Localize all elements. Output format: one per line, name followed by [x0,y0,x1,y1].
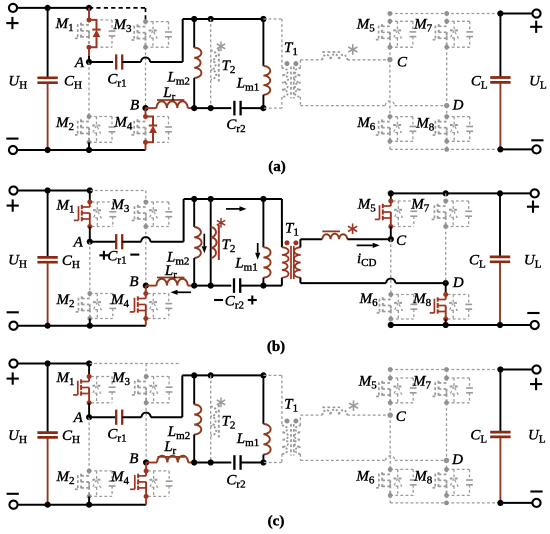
wire: node A to Cr1 (a) [89,61,113,63]
mosfet M4 conducting (b) [130,291,172,321]
node: M8 bottom rail junction (c) [444,501,449,506]
node: T2 top (a) [208,16,214,22]
svg-text:A: A [73,410,84,426]
inductor Lm1 (c) [263,375,270,462]
label M8 (a) [415,116,435,134]
mosfet M2 (c) [73,469,115,499]
node: M7 top rail junction (b) [443,190,449,196]
wire: M2 source stub (b) [89,319,91,326]
mosfet M8 (c) [431,467,473,498]
mosfet M3 (a) [130,19,172,49]
inductor Lr (c) [146,456,191,463]
label UH (a) [8,73,27,91]
wire: CL bottom rail to terminal (b) [500,324,535,326]
terminal - high side (a) [6,139,18,154]
wire: hop to corner riser (b) [150,199,183,242]
node: T2 bottom (b) [208,283,214,289]
wire: M3 source to node B dashed (c) [145,403,147,463]
node: CL top junction (c) [497,366,503,372]
label Cr1 (a) [107,71,126,89]
node: CL top junction (a) [497,10,503,16]
polarity asterisk secondary (c) [349,400,358,411]
capacitor Cr1 (c) [116,410,122,425]
label M1 (c) [56,370,75,388]
wire: Lr to Lm2 bottom (c) [192,462,195,464]
wire: A to M2 dashed (a) [88,62,90,117]
capacitor Cr2 (b) [234,278,240,293]
label M6 (b) [359,291,379,309]
label T1 (a) [284,40,298,58]
wire: M1 drain stub (a) [88,8,90,20]
mosfet M2 (b) [74,291,116,321]
node: M7 top rail junction (a) [444,11,449,16]
mosfet M3 (b) [130,200,172,229]
node: CH top junction (b) [45,187,51,193]
wire: T1 secondary top lead dashed (a) [300,60,322,68]
node: T2 bottom (c) [208,459,214,465]
transformer T1 (c) [282,419,301,456]
node: CL bottom junction (b) [497,322,503,328]
wire: middle top rail (a) [183,18,264,20]
wire: right bottom rail (b) [391,324,500,326]
wire: T1 primary bottom lead (b) [263,278,282,286]
wire: M1 source to node A (c) [88,403,90,417]
wire: CL bottom rail to terminal (c) [500,502,536,504]
node D (c) [444,452,463,468]
current arrow Lm2 down (b) [202,234,207,254]
wire: B to M4 drain (b) [145,286,147,294]
label iCD (b) [357,251,377,269]
terminal - low side (b) [527,313,539,329]
label CH (c) [62,428,80,446]
node: M2 source rail junction (b) [87,323,93,329]
wire: node A to Cr1 (b) [90,241,116,243]
capacitor CH (a) [37,8,57,150]
wire: top rail left (+) subfig c [14,363,90,365]
wire: Cr1 to hop (c) [122,416,141,418]
label (a) [268,159,286,175]
label + Cr1 - (b) [99,249,139,267]
mosfet M8 (a) [431,114,473,144]
wire: Lm2-T2-Cr2 bottom (a) [194,107,231,109]
node: CH top junction (a) [45,5,51,11]
label Lm2 (c) [167,424,190,442]
wire: dashed rail M1-M3 top (c) [89,364,181,377]
node: Lm2 bottom (c) [191,459,197,465]
mosfet M5 (c) [374,376,416,406]
label M2 (a) [55,115,74,133]
wire: M4 source to bottom rail (c) [145,496,147,504]
mosfet M6 (a) [374,114,416,144]
svg-text:(c): (c) [268,514,285,530]
node C (b) [388,233,407,249]
wire: middle top rail (b) [184,198,264,200]
inductor Lm1 (a) [263,19,270,108]
label M1 (b) [56,198,75,216]
wire: hop to corner riser (c) [151,375,183,417]
node D (b) [443,275,464,291]
svg-text:(b): (b) [267,339,285,355]
wire: top rail left (+) subfig a [13,7,89,9]
label M3 (a) [113,17,133,35]
wire: bottom rail left (b) [14,325,146,327]
node: T2 top (c) [208,372,214,378]
node: CH top junction (c) [45,360,51,366]
label (c) [268,514,285,530]
wire: right top rail dashed (c) [390,369,500,371]
capacitor CL (c) [490,370,510,503]
mosfet M7 (a) [431,19,473,50]
svg-text:D: D [451,452,463,468]
wire: CL top rail to terminal (c) [500,369,536,371]
capacitor Cr2 (c) [234,455,240,470]
wire hop over C leg (b) [386,279,395,284]
label Lm1 (b) [234,255,257,273]
wire: hop to node D dashed (c) [395,459,447,461]
label UL (b) [524,252,542,270]
wire: T1 primary top lead dashed (c) [263,375,282,425]
wire: dashed rail M1-M3 top (b) [90,191,146,203]
wire: right top rail dashed (a) [390,13,501,15]
label UH (c) [8,428,27,446]
mosfet M2 (a) [73,114,115,145]
wire: D to M8 dashed (c) [446,460,448,469]
wire: CL top rail to terminal (b) [500,192,535,194]
wire: leakage to node C (b) [347,238,391,240]
node: Lm1 top (c) [260,372,266,378]
label M5 (c) [358,373,378,391]
wire: M7 to D dashed (a) [446,47,448,105]
wire: M1 source to node A (a) [88,47,90,62]
node: M2 source rail junction (a) [86,147,92,153]
wire: A to M2 dashed (c) [88,417,90,471]
current arrow Lm1 down (b) [255,243,260,260]
node B (c) [129,451,149,467]
mosfet M5 conducting (b) [375,199,417,230]
svg-text:C: C [396,233,407,249]
terminal - high side (b) [7,312,19,330]
node: Lm2 top (a) [191,16,197,22]
terminal - low side (c) [530,492,542,508]
label M5 (a) [356,16,376,34]
node: M6 bottom rail junction (b) [388,322,394,328]
label M7 (a) [413,16,433,34]
wire: T1 secondary bottom lead (b) [300,278,386,284]
wire: top rail left (+) subfig b [14,190,90,192]
wire: CL bottom rail to terminal (a) [500,148,536,150]
mosfet M7 (c) [431,376,473,406]
terminal - low side (a) [531,140,543,153]
wire: T1 secondary bottom lead dashed (c) [300,454,385,460]
wire: Cr2 to Lm1 bottom (b) [240,285,263,287]
wire: T1 primary bottom lead dashed (a) [263,97,282,108]
wire: T1 primary bottom lead dashed (c) [263,454,282,463]
node: CH bottom junction (b) [45,323,51,329]
wire: M7 to D dashed (b) [445,227,447,284]
label M2 (b) [56,292,75,310]
label UL (a) [529,73,547,91]
node: M8 bottom rail junction (a) [444,147,449,152]
node: M7 top rail junction (c) [444,367,449,372]
terminal + low side (a) [530,9,542,33]
label - Cr2 + (b) [214,293,257,311]
transformer T1 (a) [282,61,301,98]
label M6 (c) [355,469,375,487]
polarity asterisk secondary (a) [348,44,357,55]
wire: M8 to bottom rail dashed (a) [446,141,448,149]
label Cr2 (a) [226,117,245,135]
mosfet M6 (c) [374,467,416,498]
wire: M5 stub dashed (c) [389,370,391,379]
wire: M6 to bottom rail dashed (b) [390,319,392,325]
label Lr (c) [163,439,176,457]
node A (c) [73,410,93,426]
wire: CL top rail to terminal (a) [500,13,536,15]
node: CL top junction (b) [497,190,503,196]
wire: M1 drain stub (c) [88,364,90,377]
wire: T1 secondary top lead (b) [300,239,322,247]
wire: hop to corner riser (a) [150,19,183,62]
capacitor CL (b) [490,193,510,325]
label CH (a) [64,74,82,92]
transformer T1 (b) [282,240,301,279]
wire: Cr2 to Lm1 bottom (c) [241,462,264,464]
node: CH bottom junction (c) [45,502,51,508]
terminal + low side (b) [527,189,539,213]
svg-text:A: A [74,55,85,71]
wire: M3 source to node B dashed (a) [145,47,147,108]
wire: M4 source to bottom rail (b) [145,319,147,326]
inductor Lr (b) [146,278,192,286]
label T2 (a) [222,58,236,76]
wire: Cr1 to hop (b) [122,241,141,243]
inductor Lm2 (c) [194,375,201,462]
wire: D to M8 drain (b) [445,283,447,294]
label M4 (b) [110,292,130,310]
terminal + high side (c) [7,359,19,384]
label CL (a) [471,73,488,91]
wire hop over M3-M4 leg (c) [142,413,151,418]
capacitor CL (a) [490,14,510,150]
wire: T1 secondary bottom lead dashed (a) [300,97,385,106]
capacitor Cr1 (b) [116,234,122,249]
transformer T2 (a) [211,41,226,81]
node: M2 source rail junction (c) [86,502,92,508]
inductor Lm1 (b) [263,199,270,286]
mosfet M7 (b) [430,199,472,229]
capacitor CH (c) [37,364,57,505]
current arrow iCD (b) [357,243,380,248]
mosfet M1 conducting (c) [73,374,115,405]
label (b) [267,339,285,355]
wire: hop to node D dashed (a) [395,105,447,107]
wire: node A to Cr1 (c) [89,416,116,418]
label Lr (b) [164,263,177,281]
label M4 (c) [110,469,130,487]
label Cr1 (c) [107,426,126,444]
mosfet M6 (b) [375,292,417,321]
wire: M6 to bottom rail dashed (a) [389,141,391,149]
label M3 (c) [111,370,131,388]
node C (a) [387,55,408,71]
wire: B to M4 drain (c) [145,463,147,471]
inductor Lr (a) [146,100,192,108]
node: Lm2 top (c) [191,372,197,378]
mosfet M1 conducting (b) [74,200,116,230]
transformer T2 (c) [211,397,226,437]
node: M5 top rail junction (b) [388,190,394,196]
mosfet M5 (a) [374,19,416,50]
terminal + high side (b) [7,186,19,211]
label CL (c) [470,428,487,446]
node: Lm2 bottom (a) [191,105,197,111]
wire hop over M3-M4 leg (b) [141,237,150,242]
capacitor Cr2 (a) [234,101,240,116]
wire: M8 source stub (b) [445,319,447,325]
node: M1 drain rail junction (c) [86,360,92,366]
node: Lm1 bottom (b) [260,283,266,289]
node: M1 drain rail junction (b) [87,187,93,193]
wire: M7 to D dashed (c) [446,403,448,461]
wire: M1 drain stub (b) [89,191,91,203]
node B (b) [129,274,148,290]
node: Lm1 top (a) [260,16,266,22]
svg-text:A: A [73,235,84,251]
wire: M5 to C dashed (a) [389,47,391,59]
wire: right top rail (b) [391,192,500,194]
capacitor CH (b) [37,191,57,326]
wire: bottom rail left (a) [13,149,146,151]
wire: C to M6 dashed (b) [390,239,392,294]
wire: C to M6 dashed (a) [389,60,391,117]
wire: M5 stub dashed (a) [389,14,391,22]
wire: T1 primary top lead dashed (a) [263,19,282,68]
node: Lm1 bottom (c) [260,459,266,465]
label M4 (a) [113,114,132,132]
label M8 (b) [412,291,432,309]
wire: right bottom rail dashed (c) [390,502,500,504]
wire: M7 stub dashed (a) [446,14,448,22]
label T1 (c) [284,396,298,414]
wire: M7 stub dashed (b) [445,193,447,201]
node: CL bottom junction (c) [497,500,503,506]
wire: T1 primary top lead (b) [263,199,282,247]
label M2 (c) [56,469,75,487]
node: CH bottom junction (a) [45,147,51,153]
mosfet M8 conducting (b) [430,292,472,322]
wire hop over C leg dashed (a) [385,101,394,106]
wire: hop to node D (b) [395,282,445,284]
wire: M5 to C dashed (c) [389,403,391,415]
label Lr (a) [162,85,175,103]
wire hop over C leg dashed (c) [386,456,395,461]
wire: M3 source to node B dashed (b) [145,227,147,286]
leakage inductor secondary (c) [322,407,347,415]
node: Lm1 top (b) [260,196,266,202]
node: M5 top rail corner (c) [388,367,393,372]
mosfet M4 conducting (c) [130,468,172,499]
node A (a) [74,55,92,71]
wire: T1 secondary top lead dashed (c) [300,415,322,425]
wire: bottom rail left (c) [14,504,147,506]
label M8 (c) [413,469,433,487]
label M5 (b) [357,197,377,215]
label UH (b) [8,253,27,271]
wire: Cr1 to hop (a) [122,61,141,63]
wire: B to M4 drain (a) [145,108,147,116]
terminal - high side (c) [7,494,19,509]
label Lm2 (b) [166,249,189,267]
node: M1 drain rail junction (a) [86,5,92,11]
node: T2 top (b) [208,196,214,202]
svg-text:B: B [130,97,139,113]
label UL (c) [528,428,546,446]
node: Lm2 bottom (b) [191,283,197,289]
capacitor Cr1 (a) [116,54,122,69]
wire: M5 stub (b) [390,193,392,201]
svg-text:C: C [396,409,407,425]
wire: leakage to node C dashed (a) [347,59,390,61]
svg-text:B: B [129,274,138,290]
label Lm2 (a) [166,69,189,87]
wire: Lr to Lm2 bottom (b) [192,285,195,287]
mosfet M3 (c) [130,374,172,405]
wire: right bottom rail dashed (a) [390,148,501,150]
node C (c) [388,409,407,425]
wire: Lm2-T2-Cr2 bottom (c) [194,462,231,464]
label T2 (b) [222,237,236,255]
node: Lm1 bottom (a) [260,105,266,111]
leakage inductor secondary (b) [322,231,347,239]
wire: middle top rail (c) [182,374,263,376]
node: Lm2 top (b) [191,196,197,202]
wire: Lm2-T2-Cr2 bottom (b) [194,285,231,287]
terminal + low side (c) [530,365,542,390]
wire: D to M8 dashed (a) [446,106,448,117]
wire: M6 to bottom rail dashed (c) [389,495,391,503]
node A (b) [73,235,93,251]
svg-text:D: D [452,98,464,114]
polarity asterisk secondary (b) [348,224,357,235]
svg-text:D: D [452,275,464,291]
label T1 (b) [285,220,299,238]
node: M8 bottom rail junction (b) [443,322,449,328]
wire: C to M6 dashed (c) [389,415,391,469]
wire: Lr to Lm2 bottom (a) [192,107,195,109]
label M7 (c) [412,373,432,391]
inductor Lm2 (b) [194,199,201,286]
wire hop over M3-M4 leg (a) [141,57,150,62]
wire: T2 leg (b) [210,199,212,286]
terminal + high side (a) [6,4,18,29]
label M1 (a) [55,16,74,34]
leakage inductor secondary (a) [322,52,347,60]
mosfet M1 body-diode conducting (a) [73,17,115,49]
label CL (b) [469,252,486,270]
label CH (b) [62,253,80,271]
wire: M4 source to bottom rail (a) [145,142,147,150]
wire: Cr2 to Lm1 bottom (a) [241,107,264,109]
label Lm1 (a) [236,75,259,93]
wire: M5 to C (b) [390,227,392,240]
node: CL bottom junction (a) [497,146,503,152]
node B (a) [130,97,149,113]
wire: T2 leg dashed (a) [210,19,212,108]
wire: M8 to bottom rail dashed (c) [446,495,448,503]
wire: T2 leg dashed (c) [210,375,212,462]
wire: M2 source stub (a) [88,142,90,150]
node D (a) [444,98,464,114]
